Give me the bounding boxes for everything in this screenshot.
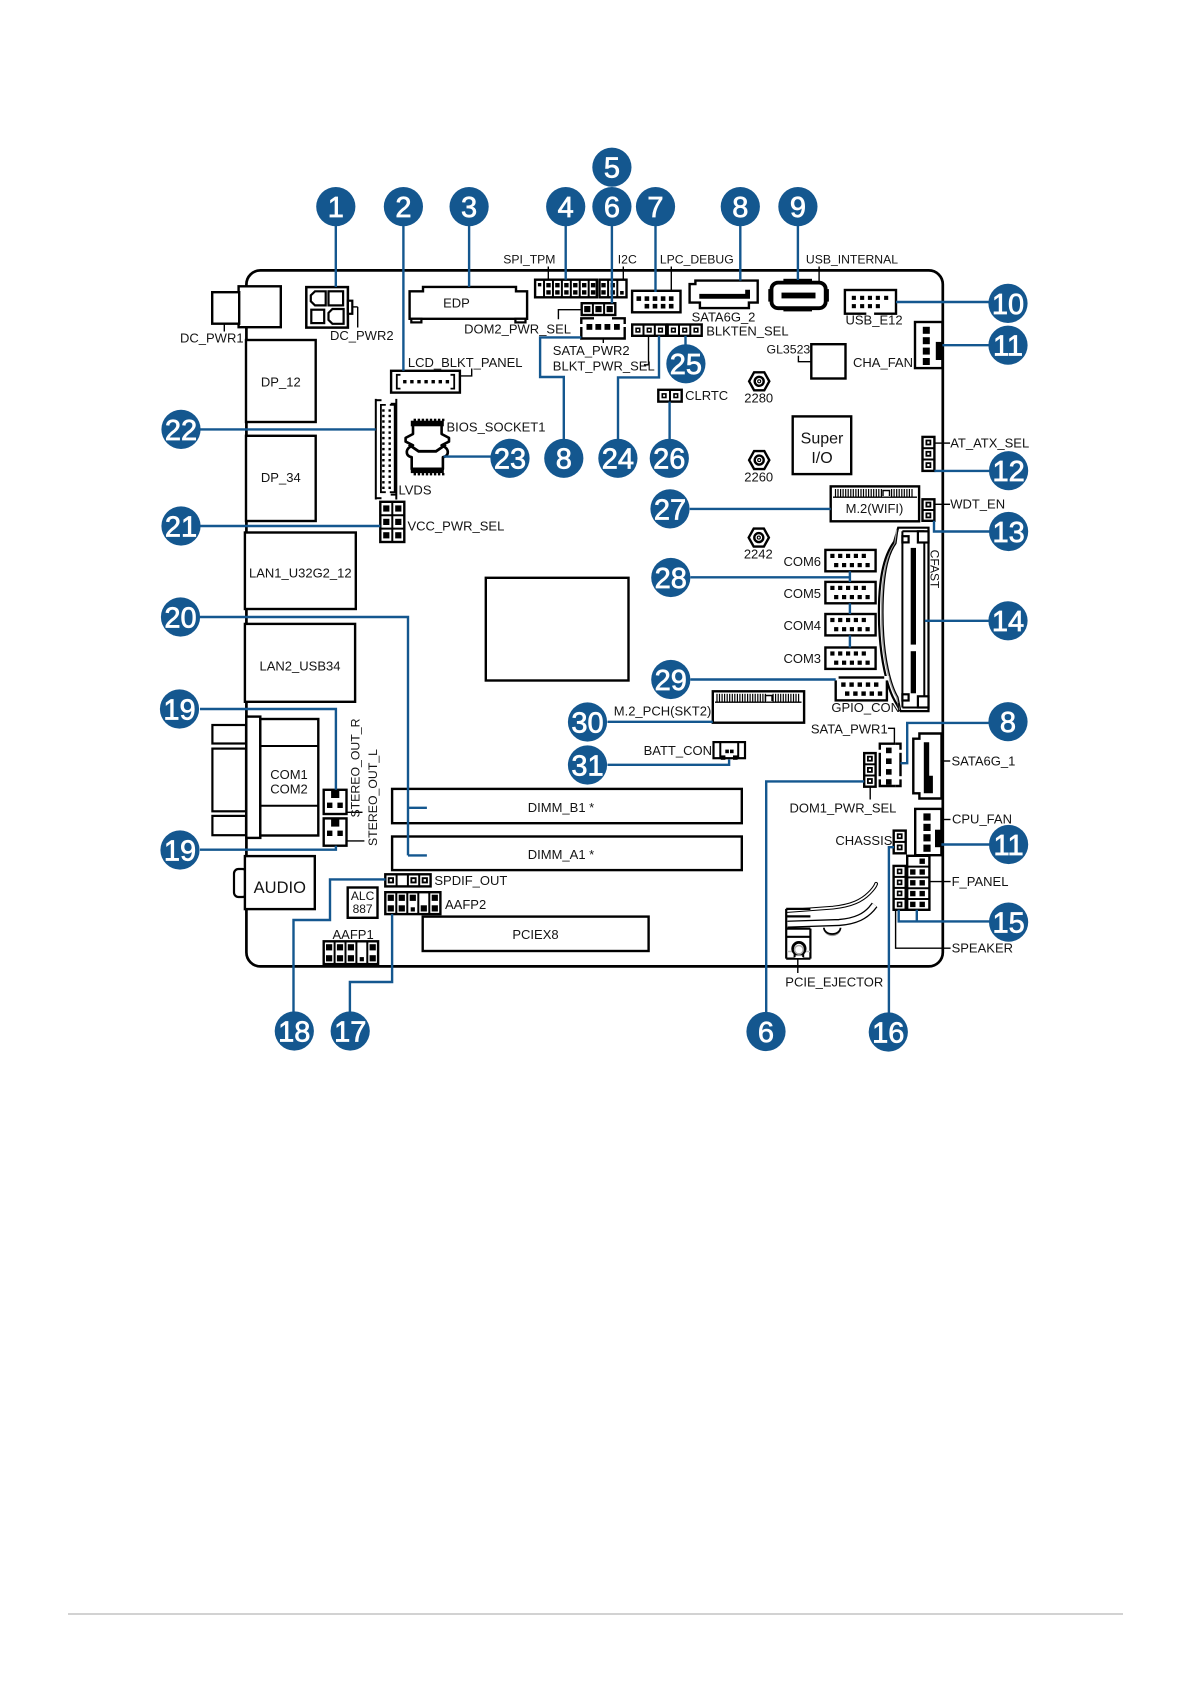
svg-text:1: 1 [328,192,344,224]
connector DC_PWR2 [306,287,348,328]
leader 2 to LCD_BLKT_PANEL [402,226,404,371]
svg-text:LAN1_U32G2_12: LAN1_U32G2_12 [249,566,352,581]
connector M.2(WIFI) [831,486,919,521]
svg-text:AT_ATX_SEL: AT_ATX_SEL [950,436,1029,451]
svg-text:AAFP2: AAFP2 [445,897,486,912]
svg-text:SPI_TPM: SPI_TPM [503,253,555,267]
callout 23 [490,439,529,478]
header COM4 [825,614,875,635]
svg-text:18: 18 [278,1016,310,1048]
svg-text:20: 20 [164,602,196,634]
connector LCD_BLKT_PANEL [391,371,460,393]
svg-text:BLKTEN_SEL: BLKTEN_SEL [706,324,788,339]
callout 12 [989,451,1028,490]
memory slot DIMM_A1 [392,837,742,871]
svg-text:COM5: COM5 [783,586,821,601]
svg-text:I2C: I2C [618,253,637,267]
svg-text:31: 31 [571,750,603,782]
jumper WDT_EN [923,499,935,521]
leader 26 to CLRTC [668,402,670,440]
connector AUDIO [234,869,247,897]
leader 13 to WDT_EN [934,521,990,532]
header F_PANEL [907,856,929,910]
connector EDP [410,287,527,319]
header I2C [600,280,627,298]
svg-text:USB_INTERNAL: USB_INTERNAL [806,253,898,267]
leader 7 to LPC_DEBUG [654,226,656,292]
jumper block VCC_PWR_SEL [380,502,404,542]
svg-text:LPC_DEBUG: LPC_DEBUG [660,253,734,267]
svg-text:M.2_PCH(SKT2): M.2_PCH(SKT2) [614,704,712,719]
svg-text:COM6: COM6 [783,554,821,569]
leader 5/6 to I2C and DOM2_PWR_SEL [611,226,613,303]
svg-text:23: 23 [494,444,526,476]
svg-text:ALC: ALC [351,889,375,903]
standoff 2242 [749,529,769,547]
header COM6 [825,550,875,571]
svg-text:8: 8 [732,192,748,224]
svg-text:25: 25 [670,349,702,381]
callout 2 [384,187,423,226]
chip Super I/O [793,416,852,474]
callout 3 [450,187,489,226]
svg-text:29: 29 [655,665,687,697]
callout 21 [161,506,200,545]
svg-text:Super: Super [801,431,844,448]
leader 1 to DC_PWR2 [335,226,337,287]
codec ALC887 [348,888,378,918]
connector USB_INTERNAL [783,279,812,283]
svg-text:17: 17 [334,1016,366,1048]
leader 3 to EDP [468,226,470,287]
svg-text:I/O: I/O [811,450,832,467]
svg-text:VCC_PWR_SEL: VCC_PWR_SEL [408,519,505,534]
jumper DOM2_PWR_SEL [582,303,616,315]
svg-text:27: 27 [654,494,686,526]
callout 18 [275,1011,314,1050]
svg-text:USB_E12: USB_E12 [846,313,903,328]
svg-text:COM3: COM3 [783,651,821,666]
header SATA_PWR2 [581,318,594,324]
svg-text:COM2: COM2 [270,781,308,796]
svg-text:GL3523: GL3523 [767,343,811,357]
wire COM6-COM3 links [849,571,851,647]
svg-text:DOM2_PWR_SEL: DOM2_PWR_SEL [464,322,571,337]
connector DC_PWR1 [239,286,281,327]
jumper STEREO_OUT_L [324,818,347,845]
leader 4 to SPI_TPM [565,226,567,280]
label SPEAKER leader [896,910,951,948]
leader 12 to AT_ATX_SEL [934,470,990,472]
svg-text:CHASSIS: CHASSIS [835,833,892,848]
callout 11 [989,825,1028,864]
leader 6 to DOM1_PWR_SEL [766,781,864,1013]
svg-text:12: 12 [992,456,1024,488]
chip BIOS_SOCKET1 [406,425,449,470]
svg-text:DC_PWR1: DC_PWR1 [180,331,244,346]
header COM5 [825,582,875,603]
slot PCIEX8 [423,917,649,951]
svg-text:14: 14 [992,606,1024,638]
jumper AT_ATX_SEL [923,437,935,471]
svg-text:19: 19 [163,694,195,726]
callout 30 [568,702,607,741]
callout 19 [160,689,199,728]
svg-text:AAFP1: AAFP1 [333,927,374,942]
svg-text:11: 11 [994,830,1024,862]
svg-text:2260: 2260 [744,470,773,485]
svg-text:M.2(WIFI): M.2(WIFI) [846,501,904,516]
header AAFP1 [324,941,378,964]
svg-text:2280: 2280 [744,391,773,406]
svg-text:7: 7 [647,192,663,224]
leader 28 to COM headers [691,576,850,578]
callout 4 [546,187,585,226]
leader 18 to SPDIF_OUT [294,879,386,1012]
jumper CLRTC [658,390,681,402]
leader 23 to BIOS_SOCKET1 [444,455,491,457]
leader 9 to USB_INTERNAL [797,226,799,280]
svg-text:CLRTC: CLRTC [685,388,728,403]
leader 11 to CPU_FAN [941,843,990,845]
fan header CHA_FAN [915,322,942,368]
header LPC_DEBUG [632,291,680,313]
svg-text:15: 15 [992,908,1024,940]
svg-text:SATA_PWR1: SATA_PWR1 [811,722,888,737]
svg-text:GPIO_CON: GPIO_CON [831,700,900,715]
svg-text:STEREO_OUT_R: STEREO_OUT_R [349,718,363,817]
svg-text:COM4: COM4 [783,618,821,633]
callout 31 [568,745,607,784]
svg-text:5: 5 [604,153,620,185]
connector M.2_PCH(SKT2) [713,691,804,722]
header SPI_TPM [535,280,597,298]
callout 7 [636,187,675,226]
svg-text:8: 8 [1000,707,1016,739]
leader 8 to SATA6G_2 [739,226,741,281]
svg-text:10: 10 [992,289,1024,321]
callout 27 [650,489,689,528]
connector SATA6G_1 [913,734,941,799]
jumper STEREO_OUT_R [324,790,347,814]
leader 21 to VCC_PWR_SEL [200,525,380,527]
leader 27 to M.2(WIFI) [690,508,831,510]
jumper BLKTEN_SEL [668,325,702,336]
svg-text:11: 11 [993,331,1023,363]
svg-text:F_PANEL: F_PANEL [952,874,1009,889]
svg-text:9: 9 [790,192,806,224]
svg-text:EDP: EDP [443,296,470,311]
svg-text:4: 4 [558,192,574,224]
svg-text:CPU_FAN: CPU_FAN [952,812,1012,827]
header AAFP2 [385,892,440,914]
connector COM1/COM2 D-SUB [212,725,246,744]
callout 29 [651,660,690,699]
callout 14 [988,601,1027,640]
lever PCIE_EJECTOR [825,930,840,936]
svg-text:8: 8 [556,444,572,476]
standoff 2260 [749,451,769,469]
callout 1 [316,187,355,226]
svg-text:19: 19 [164,835,196,867]
callout 8 [544,439,583,478]
leader 11 to CHA_FAN [942,344,989,346]
svg-text:2242: 2242 [744,547,773,562]
svg-text:CFAST: CFAST [928,550,942,589]
leader 8 to SATA_PWR2 [540,337,581,439]
svg-text:STEREO_OUT_L: STEREO_OUT_L [366,749,380,846]
svg-text:LCD_BLKT_PANEL: LCD_BLKT_PANEL [408,355,523,370]
svg-text:SATA6G_1: SATA6G_1 [952,754,1016,769]
jumper DOM1_PWR_SEL [864,753,875,787]
header GPIO_CON [836,678,887,701]
callout 10 [988,284,1027,323]
svg-text:SPDIF_OUT: SPDIF_OUT [434,873,507,888]
svg-text:22: 22 [165,415,197,447]
motherboard outline [246,270,942,966]
callout 24 [598,439,637,478]
svg-text:BIOS_SOCKET1: BIOS_SOCKET1 [447,420,546,435]
svg-text:6: 6 [758,1017,774,1049]
callout 16 [869,1012,908,1051]
svg-text:DC_PWR2: DC_PWR2 [330,328,394,343]
leader 24 to BLKT_PWR_SEL [618,336,659,440]
callout 17 [331,1011,370,1050]
jumper BLKT_PWR_SEL [632,325,666,336]
header SATA_PWR1 [880,744,885,750]
svg-text:3: 3 [461,192,477,224]
leader 25 to BLKTEN_SEL [684,336,686,345]
callout 11 [988,326,1027,365]
leader 31 to BATT_CON [608,760,730,765]
callout 8 [988,702,1027,741]
svg-text:24: 24 [602,444,634,476]
svg-text:DIMM_B1 *: DIMM_B1 * [528,800,594,815]
chip PCH [486,578,629,681]
callout 28 [651,558,690,597]
chip GL3523 [811,344,845,378]
callout 6 [746,1012,785,1051]
header COM3 [825,648,875,669]
leader 17 to AAFP2 [350,914,392,1012]
DisplayPort block DP_12 [246,340,316,422]
connector BATT_CON [714,742,746,758]
svg-text:WDT_EN: WDT_EN [950,497,1005,512]
LAN block LAN1_U32G2_12 [245,533,356,610]
leader 10 to USB_E12 [896,301,989,303]
leader 20 to DIMM slots [200,617,427,855]
svg-text:PCIE_EJECTOR: PCIE_EJECTOR [785,975,883,990]
header SPDIF_OUT [385,874,430,886]
callout 6 [592,187,631,226]
fan header CPU_FAN [915,809,941,855]
svg-text:6: 6 [604,192,620,224]
svg-text:30: 30 [571,707,603,739]
standoff 2280 [749,372,769,390]
svg-text:28: 28 [655,563,687,595]
callout 5 [592,148,631,187]
callout 25 [666,344,705,383]
svg-text:DP_34: DP_34 [261,470,301,485]
svg-text:PCIEX8: PCIEX8 [512,927,558,942]
svg-text:LVDS: LVDS [399,483,432,498]
header USB_E12 [845,290,896,314]
leader 15 to F_PANEL [899,910,990,922]
CFAST card connector [879,528,929,711]
leader 8 to SATA_PWR1 [901,723,990,763]
callout 20 [161,597,200,636]
svg-text:DOM1_PWR_SEL: DOM1_PWR_SEL [789,801,896,816]
svg-text:CHA_FAN: CHA_FAN [853,355,913,370]
LAN block LAN2_USB34 [245,624,355,702]
callout 15 [989,903,1028,942]
DisplayPort block DP_34 [246,436,316,521]
svg-text:SATA6G_2: SATA6G_2 [692,310,756,325]
svg-text:BLKT_PWR_SEL: BLKT_PWR_SEL [553,359,655,374]
svg-text:2: 2 [395,192,411,224]
callout 9 [778,187,817,226]
memory slot DIMM_B1 [392,789,742,823]
jumper CHASSIS [894,831,906,854]
svg-text:DIMM_A1 *: DIMM_A1 * [528,847,594,862]
callout 19 [160,830,199,869]
svg-text:LAN2_USB34: LAN2_USB34 [260,659,341,674]
callout 22 [161,410,200,449]
svg-text:BATT_CON: BATT_CON [644,743,712,758]
svg-text:AUDIO: AUDIO [254,879,306,897]
footer rule [68,1613,1123,1615]
connector SATA6G_2 [690,281,758,309]
leader 19 to STEREO_OUT_R [200,709,336,790]
leader 22 to LVDS [200,428,376,430]
callout 8 [721,187,760,226]
svg-text:887: 887 [353,902,373,916]
svg-text:SATA_PWR2: SATA_PWR2 [553,343,630,358]
callout 26 [650,439,689,478]
callout 13 [989,512,1028,551]
svg-text:21: 21 [165,511,197,543]
svg-text:13: 13 [992,517,1024,549]
connector LVDS [375,399,377,500]
svg-text:DP_12: DP_12 [261,375,301,390]
svg-text:SPEAKER: SPEAKER [952,941,1013,956]
svg-text:COM1: COM1 [270,767,308,782]
leader 19 to STEREO_OUT_L [200,846,336,850]
svg-text:26: 26 [653,444,685,476]
leader 29 to GPIO_CON [691,678,836,680]
svg-text:16: 16 [872,1017,904,1049]
leader 16 to CHASSIS [889,847,894,1013]
leader 30 to M.2_PCH(SKT2) [608,721,713,723]
leader 14 to CFAST [925,620,989,622]
